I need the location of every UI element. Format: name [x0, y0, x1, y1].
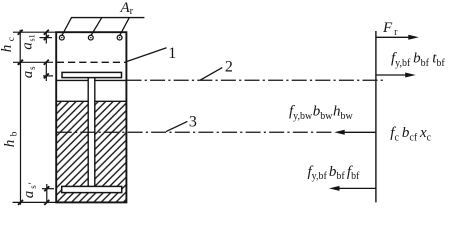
hatched concrete area — [57, 101, 126, 202]
bottom steel flange (white) — [62, 186, 122, 192]
leader slant to left rebar — [62, 18, 72, 36]
leader slant to middle rebar — [91, 18, 102, 36]
extension line rebar axis — [40, 37, 53, 39]
arrow f_y,bf b_bf t_bf — [376, 74, 407, 76]
arrow F_r — [376, 36, 410, 38]
arrow f_y,bw (left) — [343, 131, 376, 133]
leader and label 1 — [127, 48, 167, 62]
leader line under A_r — [71, 17, 144, 19]
arrow f_y,bf bottom (left) — [338, 187, 376, 189]
extension line beam bottom — [13, 201, 57, 203]
tick h_b bottom — [18, 200, 23, 205]
leader and label 2 — [200, 68, 223, 81]
dimension h_c line — [19, 30, 21, 65]
rebar circle right — [117, 35, 122, 40]
dimension h_b line — [20, 62, 22, 205]
tick a_s top — [44, 60, 49, 65]
dimension a_s1 line — [45, 32, 47, 43]
tick a_s bottom — [44, 73, 49, 78]
tick a_s1 bottom — [44, 35, 49, 40]
extension line bottom flange centroid — [42, 188, 54, 190]
interior line top of hatch — [57, 100, 126, 102]
tick h_c bottom — [18, 60, 23, 65]
dimension a_s line — [45, 62, 47, 81]
tick h_b top — [18, 60, 23, 65]
extension line slab bottom — [13, 61, 53, 63]
svg-text:3: 3 — [189, 113, 197, 130]
tick a_s1 top — [44, 30, 49, 35]
svg-text:2: 2 — [225, 59, 233, 76]
vertical reference line — [375, 31, 377, 202]
interior line below top flange — [57, 79, 126, 81]
tick h_c top — [18, 30, 23, 35]
extension line top flange centroid — [43, 75, 53, 77]
rebar circle middle — [88, 35, 93, 40]
web right line — [94, 78, 96, 186]
dimension a_s' line — [46, 184, 48, 202]
leader and label 3 — [166, 121, 187, 131]
rebar circle left — [59, 35, 64, 40]
tick a_s' bottom — [44, 200, 49, 205]
tick a_s' top — [44, 186, 49, 191]
leader slant to right rebar — [120, 18, 130, 36]
dashed line (slab bottom, item 1) — [57, 61, 126, 63]
steel web (white) — [89, 79, 95, 187]
section outline — [56, 32, 126, 202]
dash-dot centroid line 3 through section and to right — [57, 131, 335, 133]
extension line slab top — [13, 31, 56, 33]
svg-text:1: 1 — [168, 45, 176, 62]
dash-dot line 2 — [127, 79, 384, 81]
top steel flange (white) — [62, 72, 122, 77]
web left line — [87, 78, 89, 186]
